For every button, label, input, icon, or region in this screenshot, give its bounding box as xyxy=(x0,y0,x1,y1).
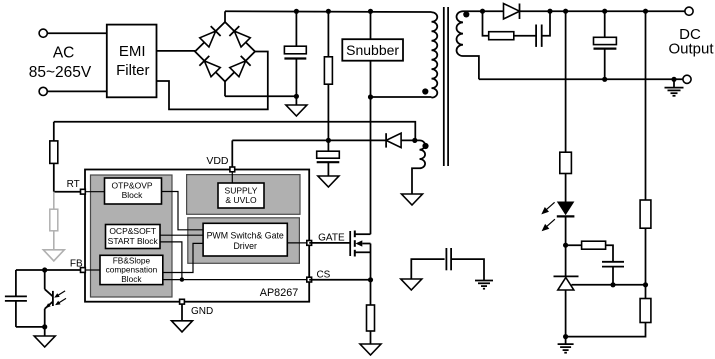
node output ground tap xyxy=(671,77,676,82)
wire internal RT xyxy=(85,191,105,193)
EMI Filter block xyxy=(107,25,157,98)
DC+ top rail xyxy=(520,10,685,12)
resistor output snubber xyxy=(483,11,537,40)
wire AC top to EMI xyxy=(47,32,106,34)
node bulk cap top xyxy=(294,9,299,14)
node CS source junction xyxy=(368,277,373,282)
wire EMI to bridge left node xyxy=(157,50,196,52)
wire MOSFET drain vertical xyxy=(370,97,372,234)
svg-text:Driver: Driver xyxy=(233,241,257,251)
ground (optocoupler) xyxy=(34,327,55,347)
wire internal OTP to PWM xyxy=(162,192,204,230)
wire bridge bottom stub xyxy=(224,82,226,97)
svg-text:& UVLO: & UVLO xyxy=(225,195,257,205)
ground (sense resistor) xyxy=(360,344,381,355)
node FB junction xyxy=(42,267,47,272)
secondary polarity dot xyxy=(463,11,469,17)
svg-text:AC: AC xyxy=(53,45,75,62)
wire VDD pin stub xyxy=(231,140,233,167)
ground (primary, below bulk cap) xyxy=(286,96,307,116)
node primary bottom xyxy=(368,94,373,99)
resistor feedback upper xyxy=(560,152,572,173)
wire internal VDD stub xyxy=(231,171,233,183)
transistor MOSFET Q1 xyxy=(350,231,370,280)
resistor current sense xyxy=(367,280,375,344)
pin GND xyxy=(180,299,185,304)
ground earth (feedback network) xyxy=(558,337,574,353)
capacitor FB (left) xyxy=(5,270,27,327)
op IC U1 AP8267 outer box xyxy=(85,170,309,302)
DC- bottom rail xyxy=(479,78,683,80)
DC output terminal bottom xyxy=(683,75,691,83)
wire CS to MOSFET source xyxy=(309,279,370,281)
node output cap bottom xyxy=(602,77,607,82)
resistor RT upper xyxy=(50,122,58,192)
transistor optocoupler phototransistor xyxy=(45,270,66,327)
opto light arrow 2 xyxy=(58,298,66,303)
wire GND stub xyxy=(181,304,183,321)
svg-text:FB: FB xyxy=(70,259,83,270)
wire bridge top stub to HV rail xyxy=(224,11,226,22)
svg-text:RT: RT xyxy=(67,179,80,190)
diode bridge D2 (right-top edge) xyxy=(229,26,250,47)
diode bridge D3 (bottom-left edge) xyxy=(199,56,220,77)
wire internal FB block to PWM xyxy=(163,243,203,272)
wire zener right to divider xyxy=(572,284,646,286)
svg-text:Snubber: Snubber xyxy=(346,42,399,58)
pin GATE xyxy=(307,241,312,246)
wire secondary top xyxy=(463,10,504,12)
diode zener reference xyxy=(554,276,579,290)
svg-text:VDD: VDD xyxy=(206,155,229,167)
node divider chain tap xyxy=(643,9,648,14)
diode output rectifier xyxy=(504,4,520,20)
Snubber block xyxy=(342,11,403,97)
primary polarity dot xyxy=(422,88,428,94)
node feedback RC junction xyxy=(563,243,568,248)
wire divider chain vertical upper xyxy=(645,11,647,200)
wire VDD line xyxy=(232,139,414,141)
ground earth (DC output) xyxy=(665,79,684,96)
IC supply gray block xyxy=(187,175,300,215)
resistor divider upper xyxy=(640,200,651,228)
capacitor VDD xyxy=(317,151,340,176)
bridge rectifier diamond xyxy=(195,22,255,82)
wire RT pin xyxy=(54,191,81,193)
svg-text:Block: Block xyxy=(122,190,144,200)
LED arrow 1 xyxy=(546,202,555,210)
svg-text:Filter: Filter xyxy=(116,62,149,79)
diode bridge D1 (left-top edge) xyxy=(199,26,220,47)
node opto emitter xyxy=(42,324,47,329)
wire feedback chain vertical upper xyxy=(565,11,567,152)
svg-text:OTP&OVP: OTP&OVP xyxy=(111,180,152,190)
block OTP&OVP xyxy=(105,178,162,204)
node output snubber right tap xyxy=(547,9,552,14)
ground (VDD cap) xyxy=(318,176,339,187)
capacitor output electrolytic xyxy=(594,11,617,79)
node VDD cap junction xyxy=(326,138,331,143)
wire internal CS line xyxy=(163,279,309,281)
node snubber top xyxy=(368,9,373,14)
node feedback ground junction xyxy=(563,334,568,339)
IC left inner gray block xyxy=(91,175,173,297)
HV top rail xyxy=(225,10,432,13)
wire divider bottom xyxy=(566,323,646,337)
LED optocoupler diode xyxy=(541,202,574,232)
wire FB net xyxy=(16,269,81,271)
wire zener to bottom node xyxy=(565,290,567,337)
resistor feedback RC xyxy=(566,241,613,262)
capacitor feedback RC xyxy=(602,262,624,285)
node RC cap bottom xyxy=(610,282,615,287)
svg-text:Output: Output xyxy=(668,40,714,57)
wire AC bottom to EMI xyxy=(47,90,106,92)
capacitor output snubber xyxy=(536,11,550,47)
diode VDD rectifier (from aux winding) xyxy=(386,133,401,147)
wire internal OCP to CS xyxy=(160,242,182,280)
resistor startup (HV to VDD) xyxy=(324,11,332,151)
pin RT xyxy=(81,189,86,194)
pin CS xyxy=(307,277,312,282)
svg-text:AP8267: AP8267 xyxy=(260,287,298,299)
wire internal PWM to GATE pin xyxy=(287,242,307,244)
LED arrow 2 xyxy=(546,219,555,227)
wire RT-chain top horizontal (crosses startup resistor line) xyxy=(54,122,416,141)
ground (Y-cap primary side) xyxy=(401,279,422,290)
wire GATE to MOSFET xyxy=(309,242,350,244)
AC input terminal top xyxy=(39,29,47,37)
AC input terminal bottom xyxy=(39,87,47,95)
resistor RT lower (grey optional) xyxy=(43,192,64,261)
node aux diode anode junction xyxy=(412,138,417,143)
ground (IC GND) xyxy=(172,321,193,332)
node bulk cap bottom xyxy=(294,94,299,99)
wire bridge bottom to bulk cap xyxy=(225,95,296,97)
transformer secondary winding xyxy=(457,11,479,79)
node feedback chain left tap xyxy=(563,9,568,14)
wire internal OCP to PWM xyxy=(160,234,203,236)
wire primary bottom xyxy=(371,96,432,98)
transformer aux winding xyxy=(412,140,425,194)
node startup resistor top xyxy=(326,9,331,14)
opto light arrow 1 xyxy=(58,291,66,296)
svg-text:EMI: EMI xyxy=(119,43,146,60)
node output snubber left tap xyxy=(480,9,485,14)
resistor divider lower xyxy=(640,299,651,323)
node internal CS junction xyxy=(180,277,184,281)
svg-text:85~265V: 85~265V xyxy=(29,64,92,81)
wire opto emitter to ground xyxy=(16,326,45,328)
wire LED to junction xyxy=(565,216,567,276)
transformer primary winding xyxy=(432,12,438,97)
block FB&Slope compensation xyxy=(100,255,163,284)
svg-text:PWM Switch& Gate: PWM Switch& Gate xyxy=(207,230,284,240)
block PWM Switch & Gate Driver xyxy=(203,223,287,256)
DC output terminal top xyxy=(685,7,693,15)
wire divider mid xyxy=(645,228,647,298)
wire to LED xyxy=(565,174,567,202)
wire EMI to bridge right node xyxy=(157,52,268,110)
IC pwm gray block xyxy=(188,218,300,263)
node divider mid junction xyxy=(643,282,648,287)
svg-text:GND: GND xyxy=(191,306,213,317)
svg-text:START Block: START Block xyxy=(108,236,159,246)
wire internal FB xyxy=(85,269,100,271)
svg-text:OCP&SOFT: OCP&SOFT xyxy=(109,226,156,236)
pin FB xyxy=(81,268,86,273)
aux winding polarity dot xyxy=(422,143,428,149)
transformer core xyxy=(444,7,448,166)
pin VDD xyxy=(230,167,235,172)
svg-text:GATE: GATE xyxy=(318,233,345,244)
block OCP&SOFT START xyxy=(106,225,161,249)
ground earth (Y-cap secondary side) xyxy=(475,281,493,289)
block SUPPLY & UVLO xyxy=(218,183,264,208)
bulk capacitor C1 xyxy=(284,11,306,96)
svg-text:Block: Block xyxy=(121,274,142,284)
ground (aux winding) xyxy=(402,194,423,205)
node output cap tap xyxy=(602,9,607,14)
capacitor Y1 (primary-secondary bridge cap) xyxy=(411,248,484,280)
diode bridge D4 (bottom-right edge) xyxy=(229,56,250,77)
